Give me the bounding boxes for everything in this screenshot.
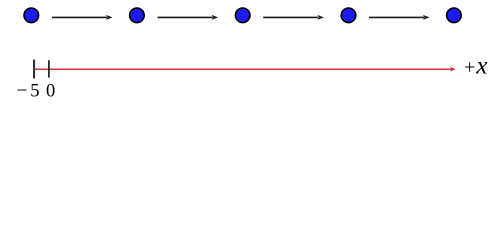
- particle dot 5: [447, 8, 462, 22]
- velocity arrow 3 head: [317, 15, 324, 20]
- particle dot 4: [341, 8, 356, 22]
- particle dot 2: [130, 8, 145, 22]
- tick mark at -5: [33, 60, 35, 79]
- velocity arrow 3 shaft: [263, 16, 318, 18]
- svg-text:+: +: [464, 58, 475, 79]
- svg-text:0: 0: [46, 82, 55, 102]
- velocity arrow 1 head: [106, 15, 113, 20]
- velocity arrow 2 shaft: [158, 16, 213, 18]
- velocity arrow 4 shaft: [369, 16, 424, 18]
- particle dot 3: [235, 8, 250, 22]
- velocity arrow 4 head: [423, 15, 430, 20]
- particle dot 1: [24, 8, 39, 22]
- svg-text:x: x: [475, 53, 487, 80]
- velocity arrow 2 head: [212, 15, 219, 20]
- x-axis arrowhead (red): [450, 67, 455, 72]
- tick mark at 0: [48, 60, 50, 77]
- x-axis line (red): [34, 68, 452, 70]
- svg-text:−5: −5: [17, 81, 40, 102]
- velocity arrow 1 shaft: [52, 16, 107, 18]
